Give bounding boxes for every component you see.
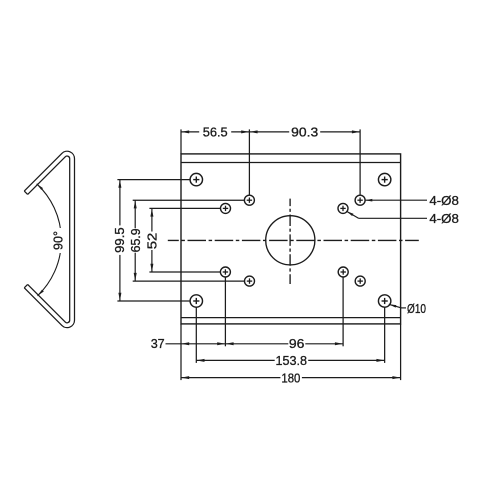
svg-text:65.9: 65.9 bbox=[129, 228, 143, 252]
svg-text:37: 37 bbox=[151, 336, 165, 351]
svg-text:Ø10: Ø10 bbox=[407, 302, 426, 316]
svg-text:4-Ø8: 4-Ø8 bbox=[429, 193, 459, 208]
svg-text:56.5: 56.5 bbox=[203, 125, 228, 140]
svg-text:90.3: 90.3 bbox=[291, 125, 318, 140]
svg-text:90°: 90° bbox=[52, 231, 66, 250]
svg-text:180: 180 bbox=[281, 371, 300, 385]
svg-text:4-Ø8: 4-Ø8 bbox=[429, 211, 459, 226]
svg-text:153.8: 153.8 bbox=[276, 354, 308, 368]
svg-text:96: 96 bbox=[289, 336, 305, 351]
svg-text:52: 52 bbox=[146, 233, 160, 250]
svg-text:99.5: 99.5 bbox=[113, 227, 127, 253]
